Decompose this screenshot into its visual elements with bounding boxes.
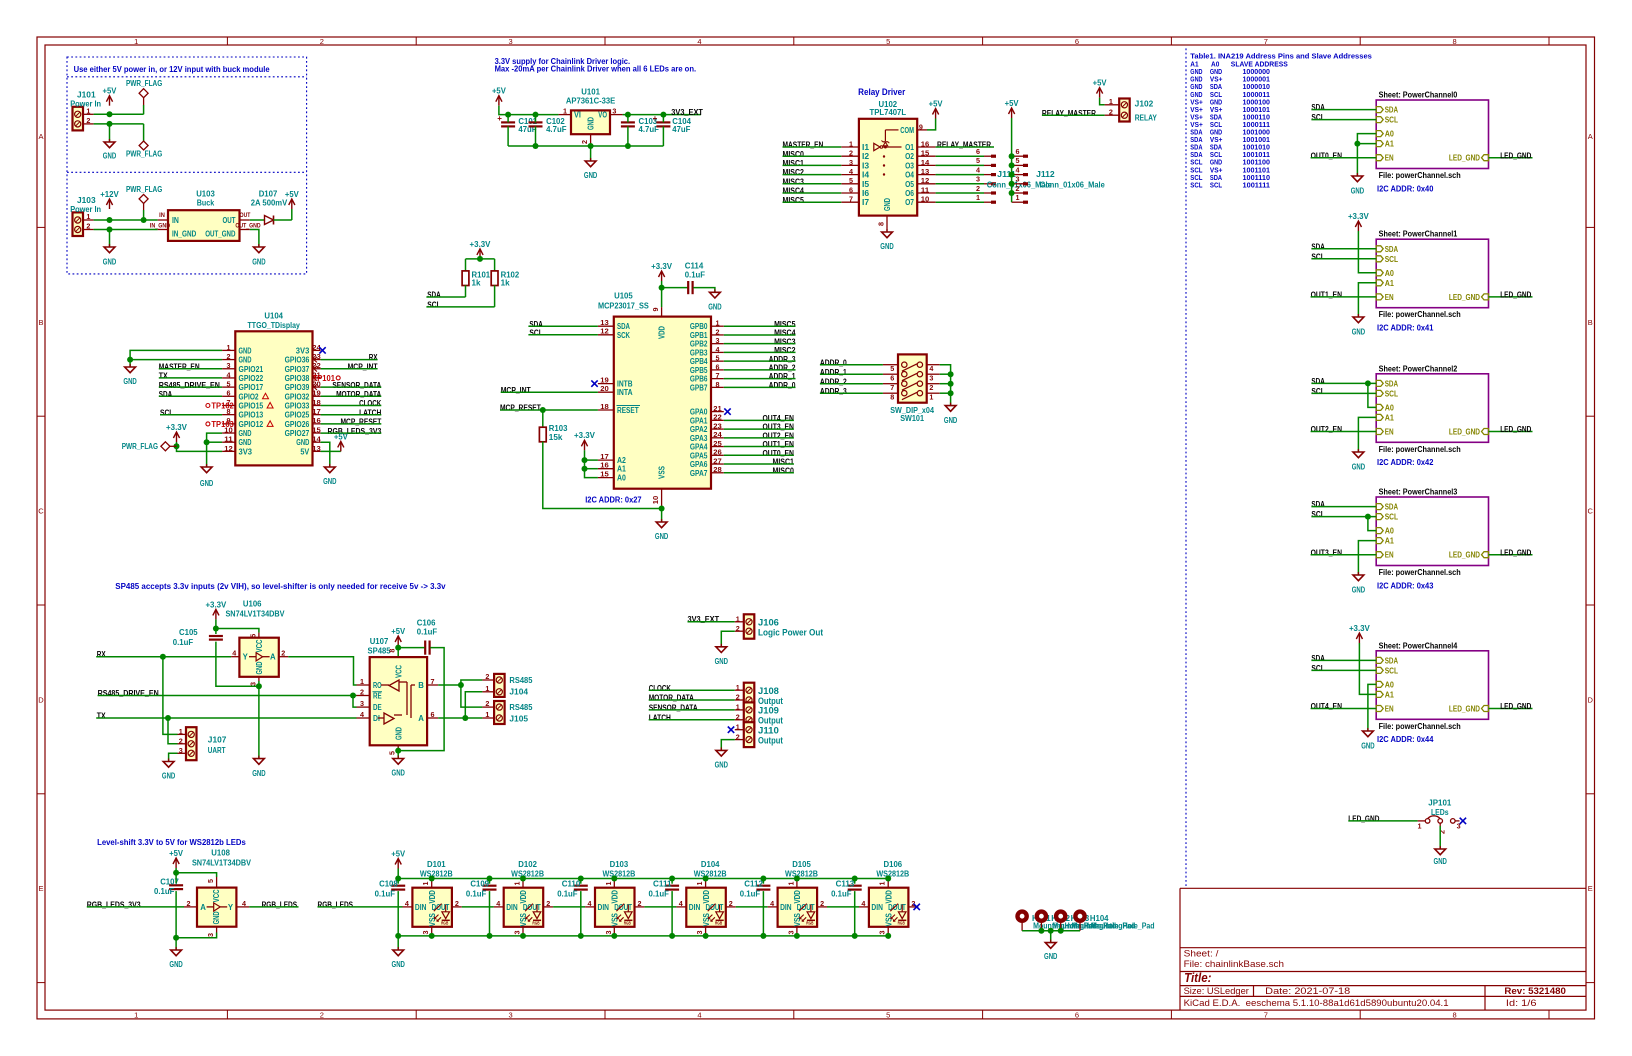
wire — [169, 753, 178, 761]
svg-text:3: 3 — [849, 158, 853, 167]
svg-text:I5: I5 — [862, 180, 870, 189]
svg-text:1: 1 — [878, 882, 887, 886]
wire — [936, 146, 994, 148]
svg-text:0.1uF: 0.1uF — [685, 270, 705, 279]
svg-text:1: 1 — [976, 193, 980, 202]
svg-text:PWR_FLAG: PWR_FLAG — [126, 149, 162, 158]
svg-text:4: 4 — [679, 899, 683, 908]
svg-text:VCC: VCC — [255, 639, 264, 652]
net label ADDR_3 at U105 — [769, 355, 796, 364]
wire — [159, 395, 222, 397]
svg-text:6: 6 — [227, 389, 231, 398]
svg-text:8: 8 — [890, 393, 894, 402]
svg-text:R103: R103 — [549, 424, 568, 433]
svg-text:2: 2 — [455, 899, 459, 908]
svg-text:8: 8 — [1453, 1010, 1457, 1019]
svg-text:B: B — [38, 318, 43, 327]
wire — [426, 306, 494, 308]
svg-text:4: 4 — [496, 899, 500, 908]
svg-text:Max -20mA per Chainlink Driver: Max -20mA per Chainlink Driver when all … — [495, 65, 696, 74]
svg-text:+3.3V: +3.3V — [1348, 212, 1370, 221]
svg-text:MASTER_EN: MASTER_EN — [783, 141, 824, 150]
svg-text:SCL: SCL — [1311, 510, 1324, 519]
power symbol +5V at J112 — [1005, 99, 1020, 118]
power flag PWR_FLAG bottom — [126, 141, 162, 158]
junction — [948, 390, 954, 396]
buck module U103 — [150, 190, 261, 241]
svg-text:J112: J112 — [1036, 170, 1055, 179]
svg-text:EN: EN — [1385, 428, 1394, 437]
wire — [321, 432, 382, 434]
wire — [258, 681, 260, 759]
junction — [395, 748, 401, 754]
wire — [1311, 669, 1376, 671]
svg-text:GPIO39: GPIO39 — [285, 383, 310, 392]
svg-text:SCL: SCL — [1311, 113, 1324, 122]
connector J111 Conn_01x06_Male — [976, 147, 1052, 202]
junction — [141, 217, 147, 223]
svg-text:3: 3 — [206, 933, 215, 937]
svg-text:3: 3 — [604, 931, 613, 935]
junction — [659, 285, 665, 291]
net label RGB_LEDS_3V3 at U108 — [87, 900, 141, 909]
svg-text:Sheet: PowerChannel0: Sheet: PowerChannel0 — [1379, 91, 1458, 100]
junction — [256, 683, 262, 689]
svg-text:1: 1 — [179, 727, 183, 736]
DIP switch SW101 SW_DIP_x04 — [883, 354, 940, 423]
svg-text:10: 10 — [921, 195, 930, 204]
svg-text:DIN: DIN — [598, 903, 610, 912]
svg-text:WS2812B: WS2812B — [420, 869, 453, 878]
power symbol +5V at LED rail — [391, 849, 406, 868]
LED module D102 WS2812B — [494, 860, 553, 936]
no-connect J110 pin 1 — [728, 727, 734, 733]
svg-text:13: 13 — [921, 167, 930, 176]
net label SDA at U104 — [159, 390, 173, 399]
wire — [159, 386, 222, 388]
svg-text:MISC3: MISC3 — [783, 177, 805, 186]
svg-text:GND: GND — [239, 429, 252, 438]
net label MCP_RESET at U104 — [341, 418, 382, 427]
net label TX — [97, 712, 106, 721]
svg-text:SCL: SCL — [427, 300, 440, 309]
svg-text:2: 2 — [281, 649, 285, 658]
svg-text:15: 15 — [312, 425, 321, 434]
ground at mounting holes — [1044, 940, 1058, 961]
note dashed box power-input section — [67, 57, 307, 274]
svg-text:GND: GND — [715, 761, 729, 770]
wire — [649, 699, 735, 701]
junction — [533, 143, 539, 149]
svg-text:3: 3 — [179, 746, 183, 755]
wire — [724, 463, 794, 465]
net label TX at U104 — [159, 372, 168, 381]
net label OUT1_EN at U105 — [763, 440, 795, 449]
svg-text:0.1uF: 0.1uF — [375, 889, 395, 898]
junction — [578, 933, 584, 939]
svg-text:3V3: 3V3 — [296, 346, 310, 355]
svg-text:OUT: OUT — [223, 216, 236, 225]
net label 3V3_EXT at J106 — [688, 615, 720, 624]
junction — [794, 876, 800, 882]
wire — [1311, 554, 1377, 556]
power symbol +3.3V at U105 A pins — [574, 431, 596, 450]
svg-text:MCP23017_SS: MCP23017_SS — [598, 302, 650, 311]
power symbol +5V at U104 pin 13 — [334, 432, 349, 451]
svg-text:DE: DE — [373, 703, 382, 712]
svg-text:8: 8 — [716, 380, 720, 389]
junction — [852, 933, 858, 939]
wire — [321, 450, 341, 452]
svg-text:RX: RX — [97, 650, 106, 659]
svg-text:I3: I3 — [862, 161, 870, 170]
svg-text:PWR_FLAG: PWR_FLAG — [122, 442, 158, 451]
wire — [177, 442, 223, 451]
ground at U106 — [252, 756, 266, 778]
net label LATCH at U104 — [359, 408, 381, 417]
ground at PowerChannel3 — [1352, 572, 1366, 594]
svg-text:MISC1: MISC1 — [783, 159, 805, 168]
svg-text:4: 4 — [929, 364, 933, 373]
LED module D103 WS2812B — [585, 860, 644, 936]
wire — [1311, 382, 1376, 384]
net label OUT2_EN at PowerChannel2 — [1311, 425, 1343, 434]
junction — [669, 876, 675, 882]
svg-text:24: 24 — [713, 430, 722, 439]
wire — [936, 183, 984, 185]
svg-text:0.1uF: 0.1uF — [417, 628, 437, 637]
wire — [163, 657, 178, 735]
wire — [1311, 119, 1376, 121]
svg-text:MISC4: MISC4 — [783, 187, 805, 196]
svg-text:MOTOR_DATA: MOTOR_DATA — [336, 390, 381, 399]
svg-text:3: 3 — [878, 931, 887, 935]
svg-text:SDA: SDA — [1311, 103, 1325, 112]
svg-text:A: A — [418, 714, 424, 723]
ground at PowerChannel1 — [1352, 314, 1366, 336]
junction — [505, 112, 511, 118]
svg-text:ADDR_2: ADDR_2 — [769, 364, 796, 373]
svg-text:1: 1 — [134, 37, 138, 46]
svg-text:SCL: SCL — [1311, 387, 1324, 396]
svg-text:0.1uF: 0.1uF — [173, 638, 193, 647]
mounting hole H102 — [1035, 909, 1116, 930]
wire — [397, 646, 399, 657]
svg-text:J109: J109 — [758, 706, 779, 716]
junction — [1009, 172, 1015, 178]
capacitor C112 — [740, 880, 771, 899]
wire — [662, 115, 664, 123]
wire — [1489, 157, 1533, 159]
wire — [649, 709, 735, 711]
wire — [724, 437, 794, 439]
svg-text:4: 4 — [976, 165, 980, 174]
junction — [127, 357, 133, 363]
svg-text:16: 16 — [312, 416, 321, 425]
svg-text:2: 2 — [227, 352, 231, 361]
svg-text:15k: 15k — [549, 433, 563, 442]
net label OUT0_EN at U105 — [763, 449, 795, 458]
net label MCP_RESET at U105 — [500, 404, 541, 413]
net label SCL at PowerChannel4 — [1311, 664, 1324, 673]
svg-text:SCL: SCL — [1385, 116, 1398, 125]
junction — [582, 457, 588, 463]
regulator U101 AP7361C-33E — [559, 88, 623, 147]
svg-text:2: 2 — [320, 37, 324, 46]
svg-text:File: powerChannel.sch: File: powerChannel.sch — [1379, 722, 1461, 731]
svg-text:0.1uF: 0.1uF — [740, 889, 760, 898]
net label SCL at PowerChannel2 — [1311, 387, 1324, 396]
svg-text:4: 4 — [861, 899, 865, 908]
svg-text:GND: GND — [162, 772, 176, 781]
svg-text:3: 3 — [509, 37, 513, 46]
wire — [321, 442, 330, 467]
svg-text:15: 15 — [600, 470, 609, 479]
svg-text:12: 12 — [224, 444, 233, 453]
svg-text:GND: GND — [239, 438, 252, 447]
svg-text:GPIO26: GPIO26 — [285, 420, 310, 429]
svg-text:2: 2 — [179, 737, 183, 746]
power symbol +5V at U107 — [391, 627, 406, 646]
wire — [176, 933, 217, 938]
svg-text:OUT4_EN: OUT4_EN — [763, 414, 795, 423]
svg-text:RGB: RGB — [624, 921, 631, 926]
svg-text:EN: EN — [1385, 293, 1394, 302]
power symbol +3.3V at PowerChannel1 — [1348, 212, 1370, 231]
svg-text:WS2812B: WS2812B — [602, 869, 635, 878]
net label MISC5 at U102 — [783, 196, 805, 205]
svg-text:VSS: VSS — [793, 913, 802, 927]
svg-text:GPIO17: GPIO17 — [239, 383, 264, 392]
svg-text:5: 5 — [849, 176, 853, 185]
svg-text:GPIO13: GPIO13 — [239, 411, 264, 420]
svg-text:TPL7407L: TPL7407L — [870, 108, 907, 117]
svg-text:VDD: VDD — [702, 890, 711, 904]
svg-text:GND: GND — [586, 117, 595, 130]
junction — [948, 371, 954, 377]
net label MASTER_EN at U102 — [783, 141, 824, 150]
net label OUT2_EN at U105 — [763, 431, 795, 440]
svg-text:COM: COM — [900, 126, 914, 135]
IC U102 TPL7407L — [841, 100, 935, 232]
svg-text:C110: C110 — [562, 880, 581, 889]
svg-text:A1: A1 — [1385, 413, 1395, 422]
note text use either 5V — [74, 65, 271, 74]
connector J107 UART — [178, 727, 227, 760]
svg-text:MISC5: MISC5 — [774, 320, 796, 329]
svg-text:MOTOR_DATA: MOTOR_DATA — [649, 694, 694, 703]
svg-text:U104: U104 — [264, 311, 283, 320]
svg-text:EN: EN — [1385, 551, 1394, 560]
svg-text:Buck: Buck — [197, 198, 215, 207]
LED module D104 WS2812B — [676, 860, 735, 936]
svg-text:SENSOR_DATA: SENSOR_DATA — [649, 704, 698, 713]
svg-text:VDD: VDD — [793, 890, 802, 904]
wire — [250, 230, 259, 248]
svg-text:GPB7: GPB7 — [690, 383, 708, 392]
svg-text:RGB_LEDS: RGB_LEDS — [318, 900, 354, 909]
wire — [627, 126, 629, 146]
test point TP102 — [206, 402, 235, 411]
wire — [94, 123, 144, 125]
wire — [585, 459, 598, 461]
note text I2C ADDR 0x43 — [1377, 581, 1434, 590]
wire — [1368, 517, 1376, 531]
svg-text:A0: A0 — [1385, 130, 1395, 139]
svg-text:TTGO_TDisplay: TTGO_TDisplay — [248, 321, 301, 330]
module U104 TTGO_TDisplay — [222, 311, 321, 465]
svg-text:6: 6 — [849, 185, 853, 194]
svg-text:6: 6 — [1075, 1010, 1079, 1019]
svg-text:GPIO33: GPIO33 — [285, 401, 310, 410]
net label SENSOR_DATA at U104 — [332, 381, 381, 390]
wire — [1358, 283, 1376, 317]
svg-text:LED_GND: LED_GND — [1500, 425, 1531, 434]
svg-text:A: A — [1588, 132, 1593, 141]
svg-text:23: 23 — [713, 421, 722, 430]
wire — [397, 936, 399, 950]
net label SDA at U105 — [529, 320, 543, 329]
svg-text:GPB4: GPB4 — [690, 357, 708, 366]
note text level-shift WS2812b — [97, 838, 246, 847]
svg-text:GPB1: GPB1 — [690, 331, 708, 340]
svg-text:+5V: +5V — [1093, 79, 1108, 88]
net label MISC1 at U102 — [783, 159, 805, 168]
ground at U104 pins 1-2 — [123, 364, 137, 386]
svg-text:J103: J103 — [77, 196, 96, 205]
junction — [395, 645, 401, 651]
connector J106 Logic Power Out — [735, 614, 823, 638]
capacitor C111... wire — [671, 879, 673, 936]
wire — [724, 446, 794, 448]
junction — [852, 876, 858, 882]
svg-text:C108: C108 — [379, 880, 398, 889]
svg-text:GPB5: GPB5 — [690, 366, 708, 375]
power flag PWR_FLAG at U104 — [122, 442, 177, 451]
ground at J101 — [103, 139, 117, 161]
wire — [1311, 516, 1376, 518]
wire — [507, 115, 509, 123]
note text Relay Driver — [858, 87, 906, 97]
resistor R102 — [491, 271, 520, 288]
hierarchical sheet PowerChannel1 — [1376, 230, 1488, 320]
net label MISC3 at U102 — [783, 177, 805, 186]
svg-text:ADDR_3: ADDR_3 — [769, 355, 796, 364]
junction — [1365, 380, 1371, 386]
svg-text:2: 2 — [580, 140, 589, 144]
net label CLOCK at U104 — [359, 399, 381, 408]
wire — [1311, 109, 1376, 111]
svg-text:AP7361C-33E: AP7361C-33E — [566, 96, 616, 105]
wire — [397, 869, 399, 879]
svg-text:GND: GND — [296, 438, 309, 447]
wire — [724, 334, 796, 336]
junction — [1009, 162, 1015, 168]
svg-text:A0: A0 — [617, 474, 626, 483]
svg-text:VSS: VSS — [702, 913, 711, 927]
svg-text:D103: D103 — [610, 860, 629, 869]
title block — [1180, 888, 1586, 1010]
svg-text:5: 5 — [716, 354, 720, 363]
power symbol +5V at D107 — [285, 190, 300, 209]
net label ADDR_1 at SW101 — [820, 368, 847, 377]
svg-text:SDA: SDA — [1385, 245, 1399, 254]
svg-text:IN_GND: IN_GND — [172, 230, 196, 239]
svg-text:C111: C111 — [653, 880, 672, 889]
svg-text:I2C ADDR: 0x43: I2C ADDR: 0x43 — [1377, 581, 1434, 590]
svg-text:1: 1 — [604, 882, 613, 886]
svg-text:I2C ADDR: 0x27: I2C ADDR: 0x27 — [585, 496, 642, 505]
svg-text:+5V: +5V — [391, 849, 406, 858]
svg-text:2: 2 — [736, 693, 740, 702]
svg-text:TX: TX — [159, 372, 168, 381]
svg-text:OUT2_EN: OUT2_EN — [1311, 425, 1343, 434]
svg-text:+3.3V: +3.3V — [651, 262, 673, 271]
wire — [207, 433, 223, 442]
svg-text:RGB: RGB — [806, 921, 813, 926]
net label MISC2 at U102 — [783, 168, 805, 177]
IC U105 MCP23017_SS — [598, 291, 724, 508]
junction — [794, 933, 800, 939]
svg-text:VSS: VSS — [519, 913, 528, 927]
svg-text:GND: GND — [239, 346, 252, 355]
svg-text:2: 2 — [820, 899, 824, 908]
wire — [175, 891, 177, 950]
svg-text:LED_GND: LED_GND — [1449, 551, 1480, 560]
svg-text:3: 3 — [509, 1010, 513, 1019]
svg-text:SP485 accepts 3.3v inputs (2v: SP485 accepts 3.3v inputs (2v VIH), so l… — [115, 582, 446, 591]
svg-text:+5V: +5V — [169, 849, 184, 858]
power symbol +5V at J102 — [1093, 79, 1108, 98]
svg-text:GPA2: GPA2 — [690, 425, 708, 434]
svg-text:15: 15 — [921, 149, 930, 158]
wire — [543, 442, 662, 509]
wire — [465, 717, 482, 719]
svg-text:27: 27 — [713, 456, 722, 465]
svg-text:Size: USLedger: Size: USLedger — [1184, 986, 1249, 997]
wire — [465, 285, 467, 297]
wire — [398, 647, 424, 649]
svg-text:MCP_INT: MCP_INT — [348, 362, 378, 371]
wire — [1311, 248, 1376, 250]
wire — [274, 219, 292, 221]
svg-text:File: powerChannel.sch: File: powerChannel.sch — [1379, 445, 1461, 454]
net label MISC4 at U102 — [783, 187, 805, 196]
svg-text:RELAY: RELAY — [1135, 113, 1158, 122]
svg-text:2: 2 — [485, 672, 489, 681]
svg-text:VO: VO — [598, 111, 607, 120]
no-connect U105 INTB — [591, 380, 597, 386]
junction — [429, 933, 435, 939]
svg-text:O6: O6 — [905, 189, 914, 198]
wire — [724, 360, 796, 362]
svg-text:3: 3 — [786, 931, 795, 935]
svg-text:21: 21 — [713, 404, 722, 413]
net label LED_GND at PowerChannel1 — [1500, 291, 1531, 300]
net label MISC0 at U102 — [783, 150, 805, 159]
svg-text:A0: A0 — [1385, 403, 1395, 412]
svg-text:17: 17 — [312, 407, 321, 416]
junction — [520, 933, 526, 939]
svg-text:I2C ADDR: 0x44: I2C ADDR: 0x44 — [1377, 735, 1434, 744]
capacitor C103 — [621, 117, 659, 134]
svg-text:3: 3 — [1016, 175, 1020, 184]
wire — [724, 419, 794, 421]
svg-text:2: 2 — [736, 713, 740, 722]
wire — [465, 259, 467, 271]
wire — [721, 740, 735, 751]
note text I2C ADDR 0x41 — [1377, 324, 1434, 333]
